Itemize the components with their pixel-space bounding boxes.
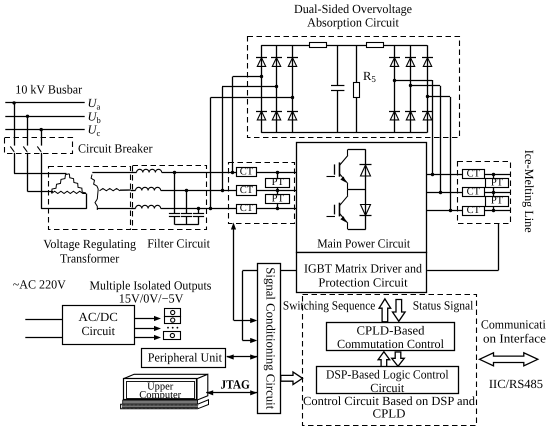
svg-text:PT: PT — [272, 177, 285, 188]
svg-text:Circuit: Circuit — [81, 324, 115, 338]
svg-text:on Interface: on Interface — [483, 332, 546, 346]
svg-text:Switching Sequence: Switching Sequence — [283, 299, 376, 313]
svg-text:CPLD-Based: CPLD-Based — [357, 323, 426, 337]
svg-text:PT: PT — [272, 194, 285, 205]
svg-text:CT: CT — [240, 203, 254, 214]
svg-text:Signal Conditioning Circuit: Signal Conditioning Circuit — [263, 267, 277, 410]
svg-text:JTAG: JTAG — [221, 378, 251, 392]
svg-text:Multiple Isolated Outputs: Multiple Isolated Outputs — [90, 278, 212, 292]
svg-text:15V/0V/−5V: 15V/0V/−5V — [119, 291, 184, 305]
svg-text:CT: CT — [467, 169, 481, 180]
svg-text:CPLD: CPLD — [373, 406, 406, 420]
svg-text:Absorption Circuit: Absorption Circuit — [307, 16, 399, 30]
svg-text:CT: CT — [467, 187, 481, 198]
svg-text:Status Signal: Status Signal — [413, 299, 474, 313]
svg-text:AC/DC: AC/DC — [79, 310, 118, 324]
svg-text:Circuit Breaker: Circuit Breaker — [78, 142, 153, 156]
svg-text:Filter Circuit: Filter Circuit — [147, 237, 210, 251]
svg-text:Main Power Circuit: Main Power Circuit — [317, 236, 410, 250]
svg-text:PT: PT — [491, 196, 504, 207]
svg-text:Peripheral Unit: Peripheral Unit — [148, 350, 223, 364]
svg-text:DSP-Based Logic Control: DSP-Based Logic Control — [326, 368, 449, 382]
svg-text:Protection Circuit: Protection Circuit — [318, 276, 408, 290]
svg-text:CT: CT — [240, 185, 254, 196]
svg-text:Communicati: Communicati — [481, 318, 546, 332]
svg-text:Commutation Control: Commutation Control — [337, 337, 445, 351]
svg-text:Computer: Computer — [139, 390, 181, 401]
svg-text:Voltage Regulating: Voltage Regulating — [43, 237, 137, 251]
svg-text:Transformer: Transformer — [60, 251, 120, 265]
svg-text:Dual-Sided Overvoltage: Dual-Sided Overvoltage — [294, 2, 412, 16]
svg-text:PT: PT — [491, 178, 504, 189]
svg-text:CT: CT — [467, 205, 481, 216]
svg-text:Circuit: Circuit — [370, 381, 405, 395]
svg-text:10 kV Busbar: 10 kV Busbar — [15, 83, 83, 97]
svg-text:CT: CT — [240, 167, 254, 178]
svg-text:IIC/RS485: IIC/RS485 — [489, 377, 543, 391]
svg-text:Ice-Melting Line: Ice-Melting Line — [522, 150, 536, 233]
svg-text:~AC 220V: ~AC 220V — [13, 277, 66, 291]
svg-text:IGBT Matrix Driver and: IGBT Matrix Driver and — [304, 262, 423, 276]
